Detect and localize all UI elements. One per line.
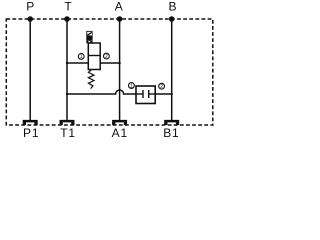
node P (top port dot) xyxy=(27,16,33,22)
marker circle 2 (valve right) xyxy=(104,53,110,59)
port T1 (bottom staple) xyxy=(60,120,75,125)
wire T branch to valve port 1 xyxy=(67,62,88,64)
junction T / valve line xyxy=(66,62,68,64)
svg-text:2: 2 xyxy=(105,54,108,60)
svg-text:P1: P1 xyxy=(23,126,39,139)
svg-text:P: P xyxy=(26,0,34,14)
port B1 (bottom staple) xyxy=(164,120,179,125)
port P1 (bottom staple) xyxy=(23,120,38,125)
valve V1 spring xyxy=(88,70,94,89)
coupling left stub xyxy=(136,93,143,95)
valve V1 divider xyxy=(88,55,100,57)
svg-text:A1: A1 xyxy=(112,126,128,139)
node B (top port dot) xyxy=(169,16,175,22)
wire valve port 2 to A line xyxy=(100,62,119,64)
svg-text:B1: B1 xyxy=(163,126,179,139)
valve V1 pilot cap xyxy=(86,31,92,41)
wire T lower branch to box (with hop over A) xyxy=(67,90,136,94)
wire B to B1 xyxy=(171,19,173,122)
coupling box U1 xyxy=(136,86,155,104)
wire box to B line xyxy=(155,93,172,95)
marker circle 2 (box right) xyxy=(159,83,165,89)
wire A to A1 xyxy=(119,19,121,122)
junction B / lower line xyxy=(171,93,173,95)
junction A / valve line xyxy=(118,62,120,64)
wire P to P1 xyxy=(29,19,31,122)
marker circle 1 (valve left) xyxy=(78,54,84,60)
svg-text:A: A xyxy=(115,0,123,14)
svg-text:2: 2 xyxy=(160,84,163,90)
valve V1 body xyxy=(88,43,100,70)
coupling right bar xyxy=(148,90,150,98)
coupling left bar xyxy=(142,90,144,98)
coupling right stub xyxy=(149,93,156,95)
svg-text:T1: T1 xyxy=(60,126,76,139)
marker circle 1 (box left) xyxy=(129,83,135,89)
svg-text:T: T xyxy=(64,0,72,14)
junction T / lower line xyxy=(66,93,68,95)
manifold enclosure (dashed border) xyxy=(6,19,213,125)
port A1 (bottom staple) xyxy=(112,120,127,125)
svg-text:1: 1 xyxy=(130,83,133,89)
node A (top port dot) xyxy=(117,16,123,22)
wire T to T1 xyxy=(66,19,68,122)
svg-text:B: B xyxy=(168,0,176,14)
svg-text:1: 1 xyxy=(80,54,83,60)
node T (top port dot) xyxy=(64,16,70,22)
